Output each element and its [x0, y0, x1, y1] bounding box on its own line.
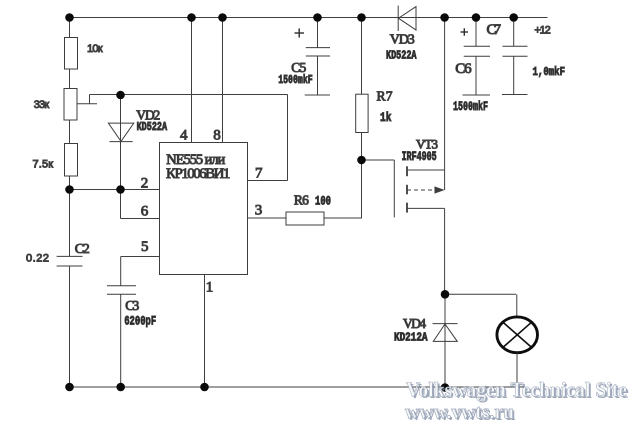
svg-text:Volkswagen Technical Site: Volkswagen Technical Site — [406, 378, 627, 402]
wire R3 to node pin2 row — [69, 176, 71, 190]
wire drain node to lamp — [445, 294, 517, 317]
wire bottom ground rail — [69, 386, 524, 388]
capacitor C6 top lead — [475, 18, 477, 47]
wire pin5 row — [121, 256, 160, 258]
plus sign of C6 — [461, 28, 469, 35]
op-amp U1 timer NE555 box — [160, 143, 248, 275]
node dot C5 top — [313, 13, 322, 22]
diode VD4 — [433, 324, 458, 342]
capacitor C6 plates — [464, 46, 490, 56]
node dot R7 top — [357, 13, 366, 22]
resistor R7 — [356, 94, 368, 132]
svg-text:VD3: VD3 — [390, 33, 415, 48]
svg-text:1500mkF: 1500mkF — [278, 73, 313, 87]
svg-text:7.5к: 7.5к — [33, 158, 54, 170]
svg-text:4: 4 — [180, 128, 188, 144]
transistor VT3 body arrow — [407, 186, 445, 193]
node dot VD2 pin2 — [116, 185, 125, 194]
svg-text:KD522A: KD522A — [386, 49, 417, 63]
capacitor C5 plates — [306, 48, 330, 56]
diode VD2 — [108, 123, 133, 142]
watermark Volkswagen Technical Site — [405, 378, 629, 425]
svg-text:C3: C3 — [125, 298, 139, 313]
node dot bottom VD4 — [441, 383, 450, 392]
wire C2 to bottom rail — [69, 266, 71, 387]
node dot C6 top — [472, 13, 481, 22]
resistor R2 33k potentiometer body — [64, 89, 77, 121]
resistor R7 top lead — [361, 18, 363, 95]
potentiometer R2 wiper arm — [78, 95, 121, 104]
pin 3 wire — [248, 217, 287, 219]
wire C3 to bottom rail — [120, 294, 122, 387]
wire pin6 vertical — [120, 190, 122, 219]
svg-text:6200pF: 6200pF — [124, 314, 156, 329]
svg-text:1: 1 — [206, 280, 214, 296]
pin 4 wire — [191, 18, 193, 143]
capacitor C7 bottom lead and bar — [502, 56, 528, 94]
node dot left pin2 — [65, 185, 74, 194]
node dot C7 top — [509, 13, 518, 22]
wire R2 to R3 — [69, 120, 71, 144]
svg-text:KD212A: KD212A — [394, 331, 428, 345]
wire R6 to gate column — [324, 217, 362, 219]
svg-text:6: 6 — [141, 204, 149, 220]
capacitor C7 top lead — [513, 18, 515, 47]
wire lamp to bottom rail — [516, 353, 518, 387]
diode VD3 — [398, 6, 416, 31]
svg-text:0.22: 0.22 — [26, 253, 49, 265]
capacitor C6 bottom lead and bar — [463, 56, 491, 95]
node dot bottom left — [65, 383, 74, 392]
resistor R1 10k — [65, 38, 78, 70]
capacitor C3 — [107, 286, 136, 295]
transistor Q1 VT3 gate lead — [362, 160, 395, 217]
node dot pin4 top — [187, 13, 196, 22]
svg-text:10к: 10к — [87, 43, 103, 55]
svg-text:3: 3 — [255, 203, 262, 219]
svg-text:100: 100 — [315, 195, 331, 209]
svg-text:KD522A: KD522A — [137, 121, 168, 134]
svg-text:IRF4905: IRF4905 — [402, 150, 437, 164]
wire node to capacitor C2 — [69, 190, 71, 257]
pin 8 wire — [222, 18, 224, 143]
resistor R3 7.5k — [65, 144, 78, 177]
svg-text:1,0mkF: 1,0mkF — [533, 65, 566, 79]
wire pin6 row — [121, 218, 160, 220]
svg-text:C7: C7 — [487, 22, 502, 38]
wire wiper node to pin7 column — [121, 94, 288, 96]
svg-text:33к: 33к — [34, 99, 50, 111]
transistor VT3 source lead — [407, 18, 445, 191]
node dot bottom C3 — [116, 383, 125, 392]
node dot top left — [65, 13, 74, 22]
node drain junction — [444, 294, 446, 387]
pin 7 wire — [248, 95, 288, 181]
transistor VT3 channel bars — [406, 166, 408, 212]
svg-text:C2: C2 — [75, 242, 90, 257]
wire wiper node down to VD2 — [120, 95, 122, 190]
wire pin2 row — [70, 189, 160, 191]
capacitor C5 top lead — [317, 18, 319, 48]
node dot source top — [440, 13, 449, 22]
capacitor C2 — [57, 256, 83, 266]
svg-text:R7: R7 — [377, 89, 393, 104]
svg-text:1k: 1k — [380, 111, 392, 125]
svg-text:C6: C6 — [455, 61, 472, 77]
resistor R6 — [286, 212, 324, 225]
capacitor C5 bottom lead and bar — [305, 56, 330, 95]
capacitor C7 plates — [503, 46, 528, 56]
lamp HL1 — [497, 317, 538, 353]
svg-text:КР1006ВИ1: КР1006ВИ1 — [166, 166, 230, 182]
node dot drain — [441, 290, 450, 299]
wire R1 to R2 — [69, 69, 71, 89]
pin 1 wire — [204, 275, 206, 388]
wire pin5 down to C3 — [120, 257, 122, 286]
svg-text:7: 7 — [255, 166, 263, 182]
node dot bottom pin1 — [200, 383, 209, 392]
svg-text:5: 5 — [141, 239, 149, 255]
svg-text:2: 2 — [141, 176, 149, 192]
transistor VT3 drain lead — [407, 208, 445, 294]
wire top supply rail — [69, 17, 548, 19]
svg-text:VD4: VD4 — [403, 316, 426, 331]
wire R7 to gate node — [361, 133, 363, 161]
svg-text:R6: R6 — [294, 193, 309, 208]
node dot wiper — [116, 91, 125, 100]
wire gate column up — [361, 160, 363, 218]
svg-text:1500mkF: 1500mkF — [453, 99, 488, 114]
svg-text:www.vwts.ru: www.vwts.ru — [405, 402, 514, 424]
wire left column top (node to R1) — [69, 18, 71, 38]
svg-text:+12: +12 — [534, 25, 550, 37]
svg-text:8: 8 — [213, 128, 221, 144]
plus sign of C5 — [295, 28, 305, 37]
node dot gate — [357, 156, 366, 165]
node dot pin8 top — [218, 13, 227, 22]
